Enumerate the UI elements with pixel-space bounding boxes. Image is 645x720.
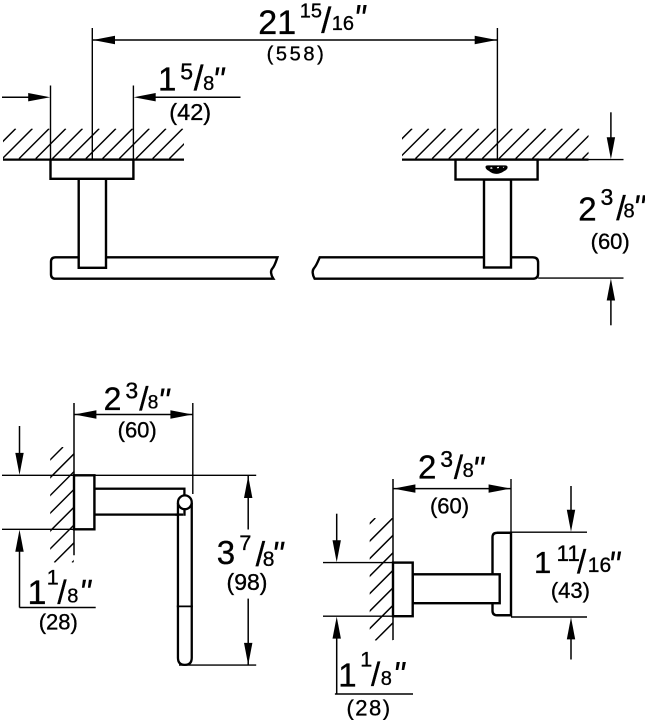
svg-text:8: 8: [148, 393, 159, 414]
svg-text:(43): (43): [551, 578, 590, 603]
svg-text:(98): (98): [227, 569, 268, 595]
svg-text:(42): (42): [169, 99, 211, 125]
svg-text:(60): (60): [118, 418, 157, 443]
svg-text:(60): (60): [591, 229, 630, 254]
svg-text:3: 3: [217, 534, 235, 571]
svg-text:(28): (28): [39, 610, 78, 635]
svg-text:8: 8: [463, 460, 474, 482]
svg-text:2: 2: [104, 381, 122, 417]
svg-text:3: 3: [601, 184, 614, 210]
svg-text:8: 8: [624, 201, 635, 223]
svg-text:16: 16: [588, 554, 611, 577]
svg-text:(28): (28): [346, 696, 391, 720]
svg-text:8: 8: [203, 73, 214, 95]
svg-text:21: 21: [258, 4, 296, 42]
svg-text:2: 2: [418, 449, 436, 486]
svg-text:(558): (558): [267, 44, 327, 66]
svg-text:8: 8: [263, 548, 275, 571]
svg-text:/: /: [321, 0, 331, 41]
svg-text:1: 1: [338, 656, 356, 693]
svg-text:2: 2: [578, 191, 596, 228]
svg-text:5: 5: [180, 59, 193, 85]
svg-text:3: 3: [125, 378, 138, 404]
svg-text:8: 8: [67, 586, 78, 608]
svg-text:15: 15: [300, 1, 322, 23]
svg-text:16: 16: [332, 13, 354, 35]
svg-text:1: 1: [158, 61, 176, 98]
svg-text:3: 3: [440, 446, 453, 472]
svg-text:8: 8: [381, 668, 392, 690]
svg-text:/: /: [371, 655, 381, 692]
svg-text:(60): (60): [430, 494, 469, 519]
svg-text:7: 7: [239, 531, 251, 555]
svg-text:/: /: [577, 543, 587, 580]
svg-text:1: 1: [28, 574, 47, 612]
svg-text:/: /: [57, 574, 67, 611]
svg-text:1: 1: [534, 545, 551, 580]
